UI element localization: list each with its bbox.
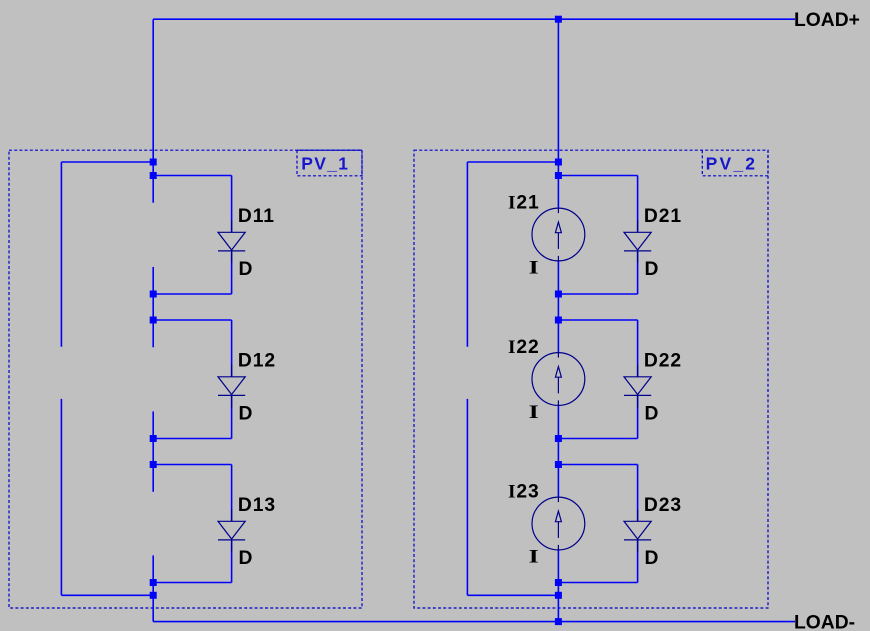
svg-text:D12: D12 <box>238 351 276 372</box>
junction PV_2 cell3 top <box>555 461 562 468</box>
svg-text:D11: D11 <box>238 206 275 227</box>
wire D21 branch vertical bottom <box>637 251 639 294</box>
wire PV_2 left branch bottom horizontal <box>467 594 558 596</box>
wire PV_1 cell1 bottom horizontal <box>153 293 231 295</box>
PV_2 label box <box>702 150 768 176</box>
junction PV_1 cell3 bottom <box>150 579 157 586</box>
junction PV_1 left-tee top <box>150 159 157 166</box>
wire D23 branch vertical bottom <box>637 540 639 583</box>
wire PV_2 middle vertical seg1 <box>557 19 559 208</box>
junction PV_1 cell1 bottom <box>150 291 157 298</box>
svg-text:D: D <box>239 403 253 424</box>
diode D23 <box>624 509 651 552</box>
wire PV_1 middle vertical seg1 <box>152 19 154 203</box>
svg-text:D: D <box>645 403 659 424</box>
wire PV_1 cell1 top horizontal <box>153 175 231 177</box>
junction PV_2 top rail <box>555 16 562 23</box>
current source I23 <box>532 497 585 550</box>
svg-text:LOAD-: LOAD- <box>794 613 855 631</box>
svg-text:PV_2: PV_2 <box>706 153 758 173</box>
junction PV_2 cell1 bottom <box>555 291 562 298</box>
wire bottom rail LOAD- <box>153 621 795 623</box>
wire PV_1 middle vertical seg3 <box>152 411 154 491</box>
junction PV_2 left-tee bottom <box>555 592 562 599</box>
wire PV_2 cell1 top horizontal <box>558 175 637 177</box>
wire PV_2 middle vertical seg2 <box>557 261 559 353</box>
wire PV_1 left vertical lower <box>60 399 62 595</box>
wire PV_1 cell3 bottom horizontal <box>153 582 231 584</box>
diode D11 <box>218 220 245 263</box>
junction PV_2 cell2 top <box>555 317 562 324</box>
junction PV_1 cell2 bottom <box>150 435 157 442</box>
svg-text:D13: D13 <box>238 495 276 516</box>
wire PV_1 cell3 top horizontal <box>153 464 231 466</box>
wire PV_1 left branch top horizontal <box>61 161 153 163</box>
wire PV_2 cell2 top horizontal <box>558 319 637 321</box>
wire PV_1 middle vertical seg4 <box>152 555 154 621</box>
wire PV_2 middle vertical seg4 <box>557 550 559 622</box>
wire D22 branch vertical bottom <box>637 395 639 438</box>
svg-text:I21: I21 <box>508 193 540 214</box>
svg-text:I: I <box>529 256 539 277</box>
junction PV_2 cell1 top <box>555 172 562 179</box>
current source I21 <box>532 208 585 261</box>
wire PV_2 cell1 bottom horizontal <box>558 293 637 295</box>
svg-text:PV_1: PV_1 <box>301 153 349 173</box>
wire D13 branch vertical top <box>231 465 233 522</box>
PV_1 label box <box>297 150 362 176</box>
current source I22 <box>532 353 585 406</box>
svg-text:I22: I22 <box>508 337 540 358</box>
wire PV_1 left vertical upper <box>60 162 62 347</box>
wire PV_2 left branch top horizontal <box>467 161 558 163</box>
wire PV_2 middle vertical seg3 <box>557 405 559 497</box>
svg-text:D23: D23 <box>644 495 682 516</box>
diode D22 <box>624 365 651 408</box>
wire D13 branch vertical bottom <box>231 540 233 583</box>
svg-text:D22: D22 <box>644 351 682 372</box>
junction PV_2 bottom rail <box>555 618 562 625</box>
svg-text:I: I <box>529 545 539 566</box>
svg-text:I: I <box>529 401 539 422</box>
diode D12 <box>218 365 245 408</box>
svg-text:D: D <box>645 259 659 280</box>
junction PV_1 cell1 top <box>150 172 157 179</box>
wire D22 branch vertical top <box>637 320 639 377</box>
wire D12 branch vertical bottom <box>231 395 233 438</box>
svg-text:LOAD+: LOAD+ <box>794 10 860 31</box>
junction PV_1 cell2 top <box>150 317 157 324</box>
junction PV_1 left-tee bottom <box>150 592 157 599</box>
wire D23 branch vertical top <box>637 465 639 522</box>
wire PV_2 cell2 bottom horizontal <box>558 438 637 440</box>
wire top rail LOAD+ <box>153 18 795 20</box>
diode D13 <box>218 509 245 552</box>
svg-text:D21: D21 <box>644 206 682 227</box>
diode D21 <box>624 220 651 263</box>
wire PV_1 cell2 bottom horizontal <box>153 438 231 440</box>
wire PV_2 left vertical upper <box>466 162 468 347</box>
wire D21 branch vertical top <box>637 176 639 233</box>
PV_2 module dashed box <box>414 150 768 608</box>
wire PV_2 cell3 top horizontal <box>558 464 637 466</box>
wire PV_1 cell2 top horizontal <box>153 319 231 321</box>
wire D12 branch vertical top <box>231 320 233 377</box>
junction PV_2 cell3 bottom <box>555 579 562 586</box>
svg-text:D: D <box>239 259 253 280</box>
junction PV_1 cell3 top <box>150 461 157 468</box>
PV_1 label box top edge <box>297 149 362 151</box>
junction PV_2 left-tee top <box>555 159 562 166</box>
junction PV_2 cell2 bottom <box>555 435 562 442</box>
wire PV_1 middle vertical seg2 <box>152 267 154 347</box>
PV_1 module dashed box <box>9 150 362 608</box>
wire PV_2 left vertical lower <box>466 399 468 595</box>
wire PV_2 cell3 bottom horizontal <box>558 582 637 584</box>
svg-text:I23: I23 <box>508 482 540 503</box>
wire D11 branch vertical bottom <box>231 251 233 294</box>
wire PV_1 left branch bottom horizontal <box>61 594 153 596</box>
wire D11 branch vertical top <box>231 176 233 233</box>
svg-text:D: D <box>239 548 253 569</box>
svg-text:D: D <box>645 548 659 569</box>
